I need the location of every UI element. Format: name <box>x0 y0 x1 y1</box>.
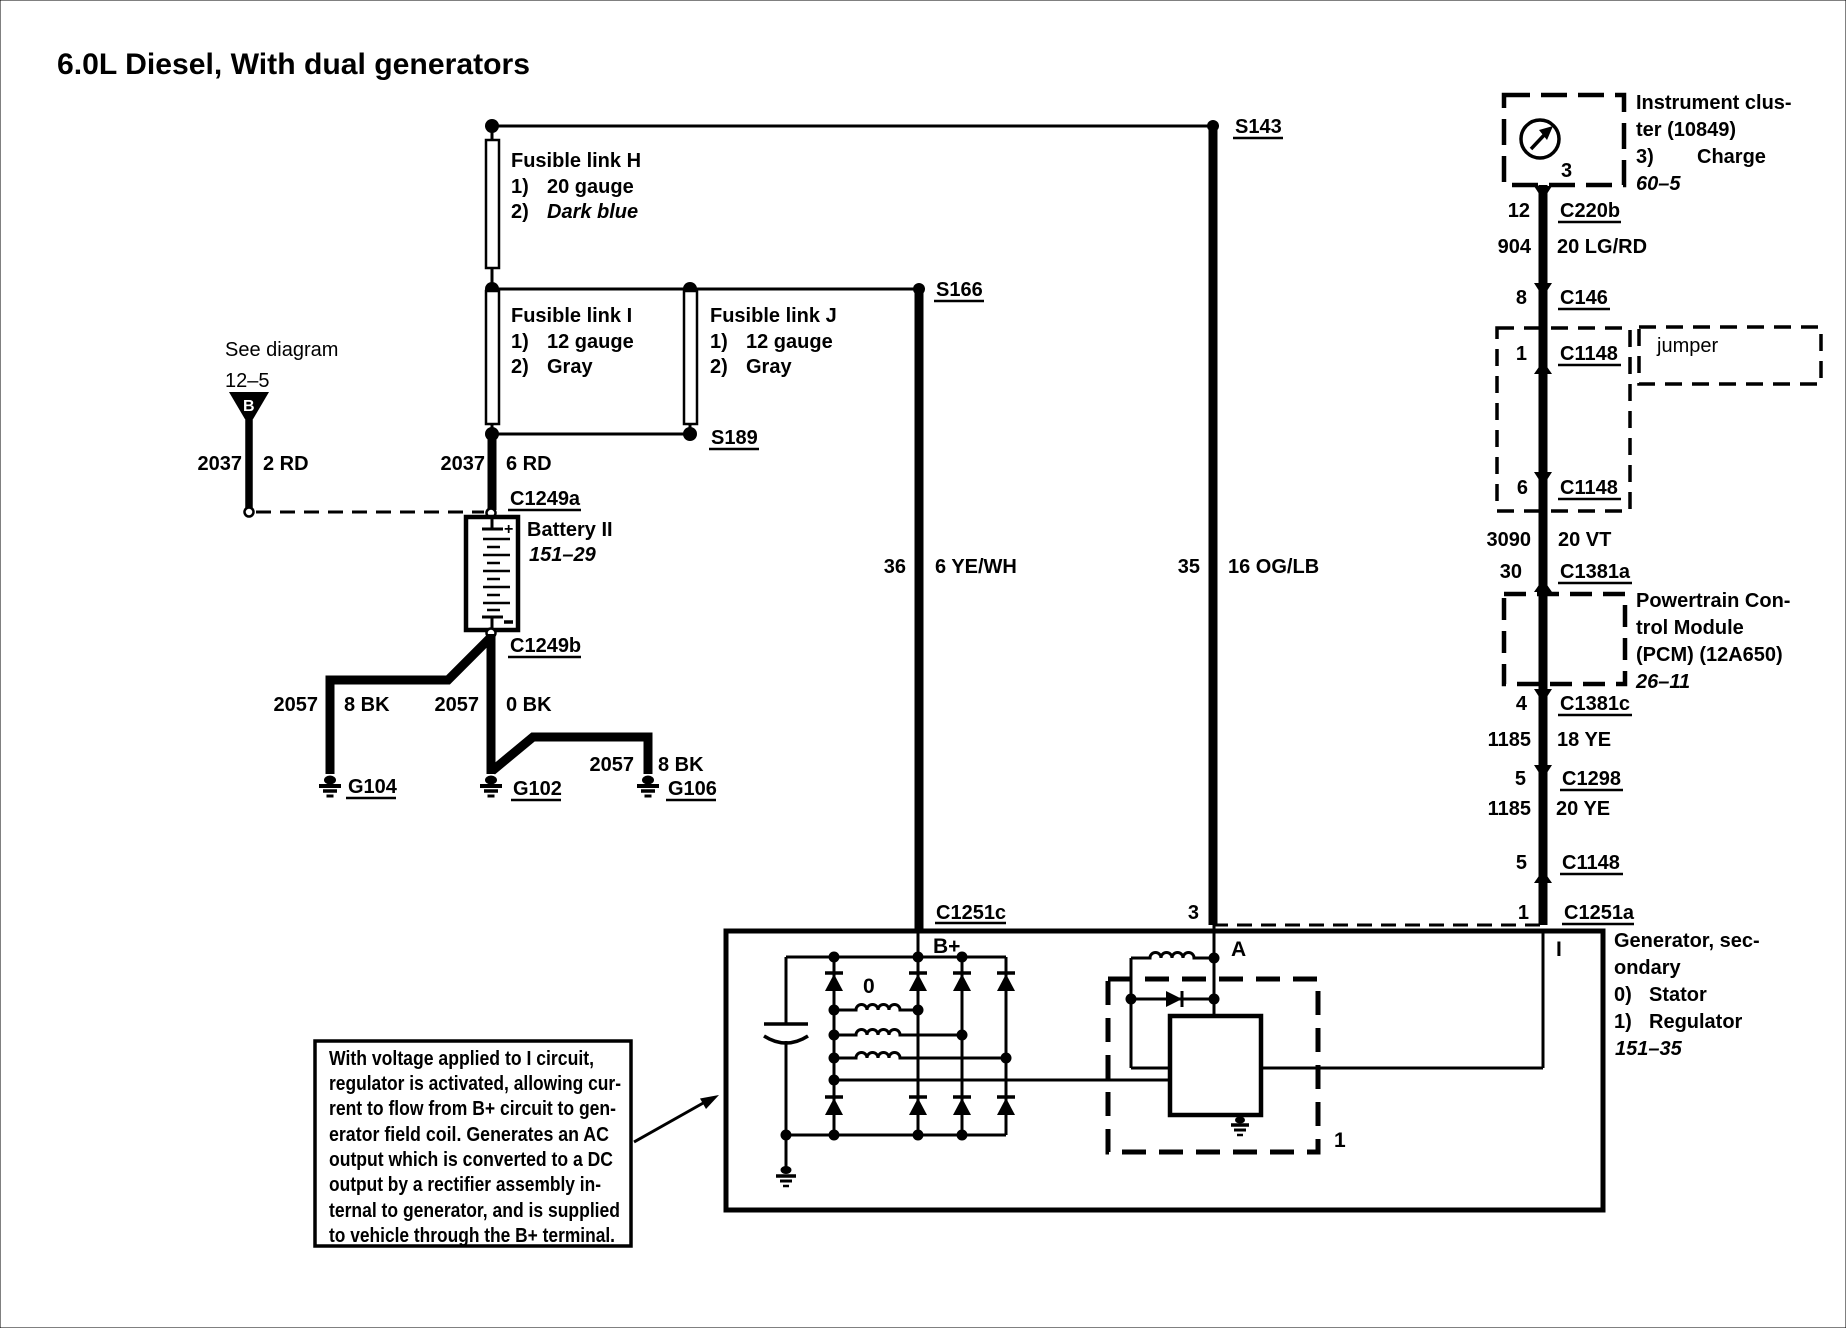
regulator dashed box <box>1108 979 1318 1152</box>
diode D8 <box>997 1097 1015 1115</box>
generator text <box>1614 930 1760 1060</box>
wire label 2057 8 BK <box>274 694 391 716</box>
svg-text:1: 1 <box>1516 343 1527 365</box>
svg-text:S143: S143 <box>1235 116 1282 138</box>
wire fuse H vertical <box>491 126 494 289</box>
svg-text:20 gauge: 20 gauge <box>547 176 634 198</box>
ground G106 <box>637 776 717 801</box>
svg-text:Powertrain Con-: Powertrain Con- <box>1636 590 1790 612</box>
wire fuse I vertical <box>491 289 494 434</box>
ground wire right branch <box>492 737 648 774</box>
terminal B+ <box>918 931 960 958</box>
svg-text:2037: 2037 <box>198 453 243 475</box>
diode D6 <box>909 1097 927 1115</box>
wire S166 to generator B+ (6 YE/WH) <box>915 289 924 931</box>
svg-text:G106: G106 <box>668 778 717 800</box>
ground G102 <box>480 776 562 801</box>
connector C1251c <box>935 902 1006 924</box>
connector C1249b <box>487 629 582 658</box>
internal ground (capacitor) <box>776 1135 796 1186</box>
connector C1251 dashed line <box>1213 924 1545 927</box>
svg-text:5: 5 <box>1516 852 1527 874</box>
svg-text:6 YE/WH: 6 YE/WH <box>935 556 1017 578</box>
svg-text:Fusible link J: Fusible link J <box>710 305 837 327</box>
note arrow <box>634 1095 719 1142</box>
svg-text:erator field coil. Generates a: erator field coil. Generates an AC <box>329 1124 609 1146</box>
wire label 1185 18 YE <box>1488 729 1612 751</box>
stator coil L1 <box>829 1005 924 1016</box>
svg-text:1): 1) <box>511 176 529 198</box>
fusible link H <box>486 140 641 268</box>
diode D2 <box>909 973 927 991</box>
terminal I <box>1543 931 1562 1068</box>
rectifier column 3 <box>961 957 964 1135</box>
rectifier column 4 <box>1005 957 1008 1135</box>
svg-text:G102: G102 <box>513 778 562 800</box>
wire regulator to I <box>1261 1067 1543 1070</box>
field diode <box>1126 991 1220 1007</box>
svg-text:5: 5 <box>1515 768 1526 790</box>
diode D7 <box>953 1097 971 1115</box>
svg-text:36: 36 <box>884 556 906 578</box>
ground wire center branch <box>487 634 496 774</box>
svg-text:18 YE: 18 YE <box>1557 729 1611 751</box>
wire label 2057 0 BK <box>435 694 553 716</box>
instrument cluster text <box>1636 92 1792 195</box>
regulator module box <box>1170 1016 1261 1115</box>
svg-text:rent to flow from B+ circuit t: rent to flow from B+ circuit to gen- <box>329 1098 616 1120</box>
svg-text:A: A <box>1231 938 1246 961</box>
svg-text:ternal to generator, and is su: ternal to generator, and is supplied <box>329 1200 620 1222</box>
svg-text:C1148: C1148 <box>1562 852 1620 874</box>
svg-text:2037: 2037 <box>441 453 486 475</box>
wire label 1185 20 YE <box>1488 798 1611 820</box>
svg-text:C1298: C1298 <box>1562 768 1621 790</box>
svg-text:12: 12 <box>1508 200 1530 222</box>
PCM text <box>1635 590 1790 693</box>
svg-text:1: 1 <box>1518 902 1529 924</box>
connector C1381c <box>1516 689 1632 715</box>
ground wire left branch <box>330 638 490 774</box>
connector C1249a <box>487 488 582 518</box>
see diagram note <box>225 339 338 392</box>
svg-text:12 gauge: 12 gauge <box>746 331 833 353</box>
pin 6 C1148 <box>1517 472 1621 499</box>
svg-text:Generator, sec-: Generator, sec- <box>1614 930 1760 952</box>
svg-text:With voltage applied to I circ: With voltage applied to I circuit, <box>329 1048 594 1070</box>
svg-text:904: 904 <box>1498 236 1532 258</box>
rectifier top rail <box>786 956 1006 959</box>
stator coil L3 <box>829 1053 1012 1064</box>
wire battery feed <box>488 434 497 510</box>
wire S143 to generator A (16 OG/LB) <box>1209 126 1218 925</box>
instrument cluster (10849) box <box>1504 95 1624 185</box>
svg-text:3090: 3090 <box>1487 529 1532 551</box>
fusible link J <box>684 291 837 424</box>
connector C220b <box>1508 200 1621 222</box>
svg-text:20 YE: 20 YE <box>1556 798 1610 820</box>
svg-text:151–29: 151–29 <box>529 544 597 566</box>
svg-text:26–11: 26–11 <box>1635 671 1690 693</box>
stator output wire to regulator <box>829 1075 1171 1086</box>
svg-text:2 RD: 2 RD <box>263 453 309 475</box>
svg-text:G104: G104 <box>348 776 398 798</box>
svg-text:2057: 2057 <box>274 694 319 716</box>
capacitor C (suppression) <box>764 957 808 1135</box>
diode D5 <box>825 1097 843 1115</box>
wire label 904 20 LG/RD <box>1498 236 1647 258</box>
jumper dashed box <box>1639 327 1821 384</box>
svg-text:Gray: Gray <box>547 356 593 378</box>
svg-text:B+: B+ <box>933 935 960 958</box>
svg-text:+: + <box>504 521 513 538</box>
svg-text:Fusible link H: Fusible link H <box>511 150 641 172</box>
connector C1298 <box>1515 765 1623 790</box>
svg-text:20 LG/RD: 20 LG/RD <box>1557 236 1647 258</box>
wire label 35 16 OG/LB <box>1178 556 1319 578</box>
svg-text:3: 3 <box>1188 902 1199 924</box>
pin 1 C1148 <box>1516 343 1621 374</box>
stator coil L2 <box>829 1030 968 1041</box>
svg-text:See diagram: See diagram <box>225 339 338 361</box>
svg-text:to vehicle through the B+ term: to vehicle through the B+ terminal. <box>329 1225 615 1247</box>
wire cluster to generator I <box>1539 185 1548 925</box>
svg-text:Instrument clus-: Instrument clus- <box>1636 92 1792 114</box>
svg-text:1): 1) <box>511 331 529 353</box>
svg-text:8 BK: 8 BK <box>344 694 390 716</box>
svg-text:12 gauge: 12 gauge <box>547 331 634 353</box>
svg-text:2): 2) <box>511 356 529 378</box>
svg-text:I: I <box>1556 938 1562 961</box>
arrow down at C146 <box>1534 283 1552 297</box>
wire label 2037 6 RD <box>441 453 552 475</box>
ground G104 <box>319 776 398 799</box>
diode D4 <box>997 973 1015 991</box>
svg-text:output by a rectifier assembly: output by a rectifier assembly in- <box>329 1174 601 1196</box>
svg-text:151–35: 151–35 <box>1615 1038 1683 1060</box>
rectifier column 1 <box>833 957 836 1135</box>
node S189 <box>485 427 759 449</box>
svg-text:regulator is activated, allowi: regulator is activated, allowing cur- <box>329 1073 621 1095</box>
svg-text:2): 2) <box>511 201 529 223</box>
svg-text:Stator: Stator <box>1649 984 1707 1006</box>
node S166 <box>485 279 984 301</box>
svg-text:2057: 2057 <box>590 754 635 776</box>
powertrain control module (PCM) box <box>1504 594 1625 684</box>
diode D3 <box>953 973 971 991</box>
generator secondary box <box>726 931 1603 1210</box>
svg-text:C1148: C1148 <box>1560 477 1618 499</box>
svg-text:jumper: jumper <box>1656 335 1718 357</box>
svg-text:12–5: 12–5 <box>225 370 270 392</box>
svg-text:Fusible link I: Fusible link I <box>511 305 632 327</box>
svg-text:6 RD: 6 RD <box>506 453 552 475</box>
svg-text:C1249a: C1249a <box>510 488 581 510</box>
svg-text:1: 1 <box>1334 1129 1346 1152</box>
svg-text:60–5: 60–5 <box>1636 173 1681 195</box>
svg-text:8: 8 <box>1516 287 1527 309</box>
rectifier column 2 <box>917 957 920 1135</box>
svg-text:Dark blue: Dark blue <box>547 201 638 223</box>
connector C1381a <box>1500 561 1632 592</box>
terminal A <box>1214 925 1246 1016</box>
svg-text:C220b: C220b <box>1560 200 1620 222</box>
regulator ground <box>1231 1115 1249 1135</box>
wire label 2057 8 BK (G106) <box>590 754 705 776</box>
svg-text:2057: 2057 <box>435 694 480 716</box>
connector C1148 dashed box <box>1497 328 1630 511</box>
wire label 2037 2 RD <box>198 453 309 475</box>
svg-text:2): 2) <box>710 356 728 378</box>
svg-text:16 OG/LB: 16 OG/LB <box>1228 556 1319 578</box>
svg-text:B: B <box>243 398 255 415</box>
svg-text:1185: 1185 <box>1488 729 1531 751</box>
svg-text:1): 1) <box>1614 1011 1632 1033</box>
svg-text:C146: C146 <box>1560 287 1608 309</box>
svg-text:Regulator: Regulator <box>1649 1011 1743 1033</box>
svg-text:(PCM) (12A650): (PCM) (12A650) <box>1636 644 1783 666</box>
svg-text:0): 0) <box>1614 984 1632 1006</box>
svg-text:4: 4 <box>1516 693 1528 715</box>
svg-text:3: 3 <box>1561 160 1572 182</box>
arrow down at C220b <box>1534 186 1552 200</box>
wire fuse J vertical <box>689 289 692 434</box>
svg-text:output which is converted to a: output which is converted to a DC <box>329 1149 613 1171</box>
svg-text:ter (10849): ter (10849) <box>1636 119 1736 141</box>
svg-text:C1381a: C1381a <box>1560 561 1631 583</box>
rectifier bottom rail <box>781 1130 1007 1141</box>
svg-text:0 BK: 0 BK <box>506 694 552 716</box>
svg-text:C1251c: C1251c <box>936 902 1006 924</box>
svg-text:35: 35 <box>1178 556 1200 578</box>
svg-text:6: 6 <box>1517 477 1528 499</box>
svg-text:trol Module: trol Module <box>1636 617 1744 639</box>
wire label 3090 20 VT <box>1487 529 1612 551</box>
svg-text:Charge: Charge <box>1697 146 1766 168</box>
svg-text:0: 0 <box>863 975 875 998</box>
field coil <box>1131 953 1220 964</box>
connector C146 <box>1516 287 1610 309</box>
junction dots top rail <box>829 952 968 963</box>
svg-text:S189: S189 <box>711 427 758 449</box>
dashed wire to battery positive <box>245 508 485 517</box>
svg-text:C1251a: C1251a <box>1564 902 1635 924</box>
wire from B <box>245 420 253 508</box>
node S143 <box>485 116 1283 138</box>
connector B (to diagram 12-5) <box>229 392 269 426</box>
svg-text:Gray: Gray <box>746 356 792 378</box>
diode D1 <box>825 973 843 991</box>
svg-text:1185: 1185 <box>1488 798 1531 820</box>
connector C1251a <box>1562 902 1635 924</box>
note box <box>315 1041 631 1247</box>
svg-text:ondary: ondary <box>1614 957 1682 979</box>
svg-text:1): 1) <box>710 331 728 353</box>
svg-text:C1249b: C1249b <box>510 635 581 657</box>
svg-text:3): 3) <box>1636 146 1654 168</box>
field wire left <box>1130 958 1133 1068</box>
svg-text:8 BK: 8 BK <box>658 754 704 776</box>
pin 5 C1148 lower <box>1516 852 1623 883</box>
svg-text:C1381c: C1381c <box>1560 693 1630 715</box>
battery BAT2 Battery II <box>466 517 613 630</box>
svg-text:C1148: C1148 <box>1560 343 1618 365</box>
wire field to regulator <box>1131 1067 1170 1070</box>
svg-text:S166: S166 <box>936 279 983 301</box>
svg-text:20 VT: 20 VT <box>1558 529 1611 551</box>
svg-text:30: 30 <box>1500 561 1522 583</box>
fusible link I <box>486 291 634 424</box>
svg-text:Battery II: Battery II <box>527 519 613 541</box>
svg-text:6.0L Diesel, With dual generat: 6.0L Diesel, With dual generators <box>57 48 530 81</box>
wire label 36 6 YE/WH <box>884 556 1017 578</box>
